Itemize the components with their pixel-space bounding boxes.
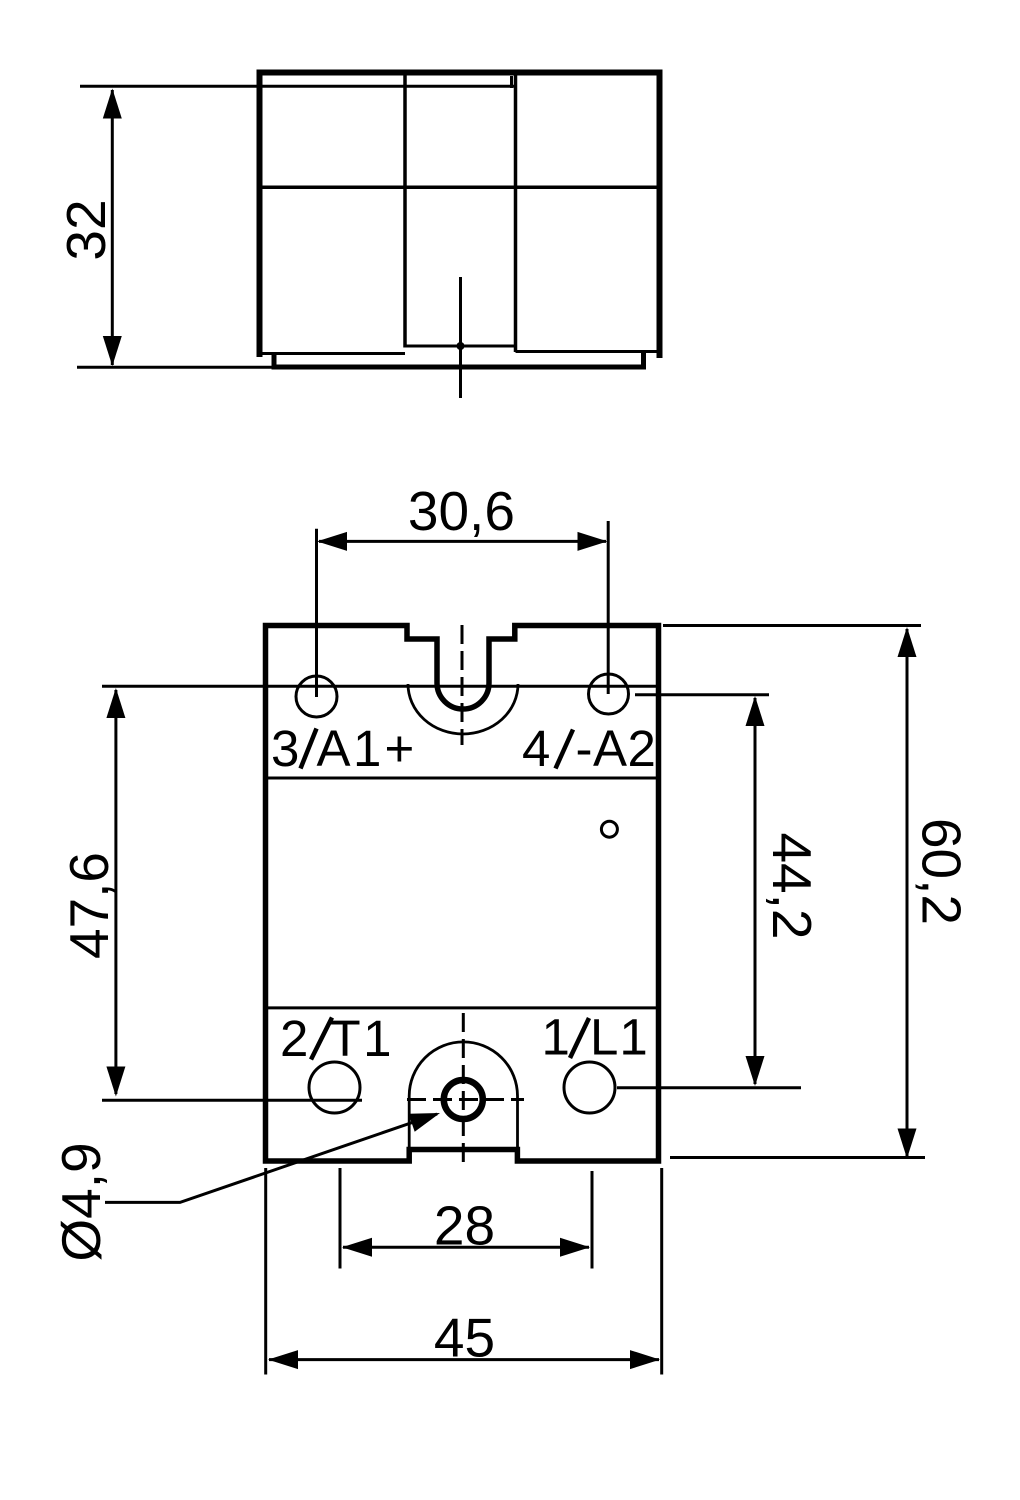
- bottom view body outline with mounting notches: [266, 626, 659, 1162]
- dimension 60,2 line: [898, 627, 917, 1159]
- dimension 30,6 extension line left: [315, 529, 318, 697]
- svg-text:-A2: -A2: [576, 720, 657, 777]
- dimension 28 extension line left: [339, 1168, 342, 1269]
- lower hole left: [309, 1062, 360, 1113]
- top view junction dot: [457, 342, 465, 350]
- top view vertical divider left: [403, 75, 407, 348]
- dimension 30,6 line: [317, 532, 608, 551]
- svg-text:30,6: 30,6: [408, 480, 515, 542]
- svg-text:A1: A1: [317, 720, 384, 777]
- dimension 47,6 bottom extension line: [102, 1099, 362, 1102]
- dimension 47,6 line: [106, 688, 125, 1097]
- svg-text:45: 45: [434, 1307, 495, 1369]
- svg-text:60,2: 60,2: [911, 818, 973, 925]
- terminal label 3/A1+: [271, 720, 414, 777]
- terminal label 1/L1: [542, 1009, 649, 1066]
- lower hole right: [564, 1062, 615, 1113]
- dimension 28 extension line right: [591, 1171, 594, 1269]
- dimension 32 top extension line: [80, 85, 514, 88]
- long horizontal reference line through top holes: [102, 685, 660, 688]
- LED indicator hole: [601, 821, 617, 837]
- center mounting hole thick ring: [444, 1080, 483, 1119]
- top view vertical divider right: [514, 75, 518, 352]
- top view horizontal mid line: [261, 186, 658, 190]
- top view centerline: [459, 277, 462, 398]
- bottom hole horizontal centerline dashed: [407, 1098, 524, 1101]
- dimension 45 line: [268, 1350, 660, 1369]
- dimension 30,6 extension line right: [607, 521, 610, 694]
- svg-text:44,2: 44,2: [761, 832, 823, 939]
- svg-text:L1: L1: [590, 1009, 649, 1066]
- svg-text:32: 32: [55, 199, 117, 260]
- top view bottom line right column: [516, 350, 659, 353]
- terminal label 4/-A2: [522, 720, 656, 777]
- dimension 45 extension line right: [660, 1168, 663, 1375]
- top view inner top line tick: [510, 76, 513, 88]
- dimension 44,2 line: [746, 696, 765, 1086]
- dimension 28 line: [342, 1238, 590, 1257]
- svg-text:28: 28: [434, 1195, 495, 1257]
- top boss semicircle arc: [408, 684, 518, 734]
- svg-text:1: 1: [542, 1009, 570, 1066]
- top view bottom lip: [274, 352, 644, 367]
- divider line lower: [267, 1006, 657, 1009]
- top hole left: [296, 676, 337, 717]
- svg-text:Ø4,9: Ø4,9: [50, 1142, 112, 1261]
- svg-text:2: 2: [280, 1010, 308, 1067]
- svg-text:3: 3: [271, 720, 299, 777]
- top U-slot centerline dashed: [461, 625, 464, 745]
- svg-text:+: +: [385, 720, 415, 777]
- bottom mounting dome: [409, 1042, 517, 1149]
- top view bottom line left column: [261, 352, 405, 355]
- top hole right: [589, 674, 629, 714]
- top view bottom line middle column: [405, 345, 516, 348]
- terminal label 2/T1: [280, 1010, 394, 1067]
- dimension 60,2 bottom extension line: [670, 1156, 925, 1159]
- dimension 32 bottom extension line: [77, 366, 274, 369]
- dimension 44,2 top extension line: [635, 693, 769, 696]
- dimension 45 extension line left: [264, 1168, 267, 1375]
- dimension 60,2 top extension line: [663, 624, 921, 627]
- top view outer case outline: [260, 73, 660, 359]
- svg-text:4: 4: [522, 720, 550, 777]
- dimension 44,2 bottom extension line: [617, 1086, 801, 1089]
- dimension 32 line: [103, 89, 122, 367]
- diameter 4,9 leader line: [105, 1113, 440, 1202]
- bottom hole vertical centerline dashed: [462, 1013, 465, 1165]
- svg-text:T1: T1: [330, 1010, 395, 1067]
- svg-text:47,6: 47,6: [58, 852, 120, 959]
- divider line upper: [267, 777, 657, 780]
